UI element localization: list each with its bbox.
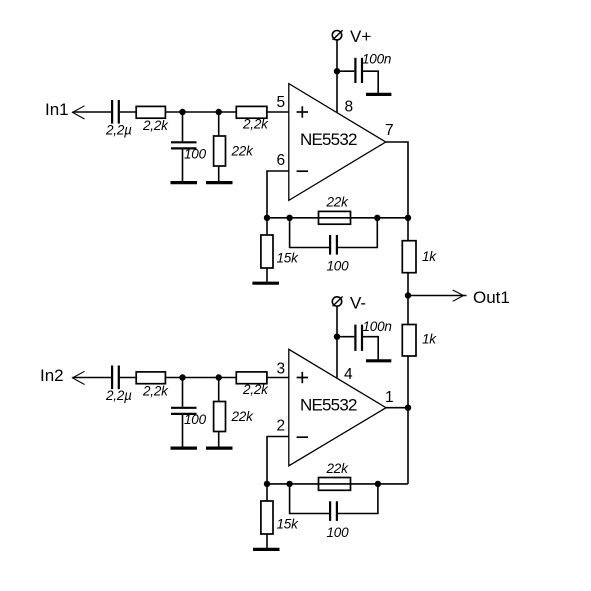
wire R5 to ground <box>266 268 268 282</box>
node V+ junction <box>334 68 340 74</box>
wire node C down to C6 <box>182 378 184 407</box>
ground under R12 <box>253 548 280 551</box>
svg-text:2,2µ: 2,2µ <box>105 123 132 138</box>
wire R10 to ground <box>218 432 220 447</box>
svg-text:V-: V- <box>350 294 366 313</box>
resistor R1 2,2k <box>136 106 165 118</box>
feedback wire <box>267 217 408 219</box>
svg-text:22k: 22k <box>231 144 255 159</box>
svg-text:22k: 22k <box>231 409 255 424</box>
resistor R2 2,2k <box>236 106 267 118</box>
svg-text:15k: 15k <box>277 251 300 266</box>
input arrow In2 <box>73 371 85 384</box>
svg-text:100n: 100n <box>363 319 392 334</box>
capacitor C8 100 feedback <box>290 484 329 514</box>
capacitor C6 100 <box>171 407 197 409</box>
capacitor C4 100 feedback <box>290 218 329 248</box>
resistor R10 22k <box>214 402 226 432</box>
svg-text:100: 100 <box>327 259 350 274</box>
svg-text:100: 100 <box>327 525 350 540</box>
wire V+ to node <box>336 40 338 71</box>
ground under C6 <box>171 447 198 450</box>
wire R9 to op-amp pin 3 <box>267 377 289 379</box>
wire C5 to R8 <box>120 377 136 379</box>
svg-text:100: 100 <box>184 412 207 427</box>
wire node A down to C2 <box>182 112 184 141</box>
svg-text:2,2µ: 2,2µ <box>105 388 132 403</box>
wire C3 to ground <box>363 71 378 93</box>
node D <box>216 374 222 380</box>
capacitor C3 100n <box>354 58 356 83</box>
svg-text:1k: 1k <box>422 249 437 264</box>
svg-text:NE5532: NE5532 <box>300 130 357 149</box>
wire node to pin 4 <box>336 337 338 378</box>
wire R6 to Out1 node <box>407 273 409 296</box>
wire C6 to ground <box>182 415 184 447</box>
svg-text:2,2k: 2,2k <box>242 117 269 132</box>
svg-text:100n: 100n <box>362 52 391 67</box>
wire node B down to R3 <box>218 112 220 136</box>
svg-text:100: 100 <box>184 147 207 162</box>
svg-text:15k: 15k <box>277 517 300 532</box>
ground under C3 <box>366 93 391 96</box>
node V- junction <box>334 334 340 340</box>
resistor R3 22k <box>214 136 226 166</box>
node F4 <box>405 215 411 221</box>
svg-text:5: 5 <box>277 94 286 111</box>
ground under R10 <box>206 447 233 450</box>
svg-text:2,2k: 2,2k <box>142 118 169 133</box>
ground under C7 <box>366 359 391 362</box>
resistor R4 22k feedback <box>319 211 351 224</box>
svg-text:2,2k: 2,2k <box>242 382 269 397</box>
wire to Out1 arrow <box>408 295 467 297</box>
svg-text:2: 2 <box>277 418 286 435</box>
wire R12 to ground <box>266 534 268 548</box>
wire C2 to ground <box>182 149 184 181</box>
wire C1 to R1 <box>120 111 136 113</box>
resistor R11 22k feedback <box>319 478 351 491</box>
resistor R8 2,2k <box>136 372 165 384</box>
wire In1 to C1 <box>73 111 112 113</box>
resistor R7 1k <box>407 296 409 325</box>
wire C7 to ground <box>363 337 378 360</box>
svg-text:22k: 22k <box>326 195 350 210</box>
node G3 <box>375 481 381 487</box>
wire R1 to R2 <box>165 111 236 113</box>
node G2 <box>286 481 292 487</box>
resistor R12 15k <box>266 484 268 501</box>
svg-text:8: 8 <box>345 99 354 116</box>
svg-text:6: 6 <box>277 152 286 169</box>
wire node D down to R10 <box>218 378 220 402</box>
node A <box>179 109 185 115</box>
wire R2 to op-amp pin 5 <box>267 111 289 113</box>
ground under C2 <box>171 181 198 184</box>
input arrow In1 <box>73 106 85 119</box>
node F3 <box>374 215 380 221</box>
node G1 <box>264 481 270 487</box>
svg-text:2,2k: 2,2k <box>142 384 169 399</box>
wire output down to feedback <box>407 408 409 484</box>
wire pin 2 to feedback <box>267 437 289 484</box>
wire R7 down to output node 2 <box>407 356 409 408</box>
svg-text:3: 3 <box>277 361 286 378</box>
node F2 <box>286 215 292 221</box>
ground under R5 <box>252 282 279 285</box>
wire output pin7 <box>386 142 408 218</box>
power terminal V- <box>332 297 341 306</box>
node B <box>216 109 222 115</box>
ground under R3 <box>206 181 233 184</box>
node C <box>179 374 185 380</box>
svg-text:7: 7 <box>385 122 394 139</box>
wire node to C7 <box>337 336 354 338</box>
capacitor C1 2,2u <box>111 100 113 124</box>
wire R8 to R9 <box>165 377 236 379</box>
svg-text:NE5532: NE5532 <box>300 395 357 414</box>
output arrow Out1 <box>453 290 464 301</box>
svg-text:V+: V+ <box>350 27 371 46</box>
resistor R5 15k <box>266 218 268 235</box>
power terminal V+ <box>332 31 341 40</box>
svg-text:1: 1 <box>385 389 394 406</box>
wire output pin1 <box>386 407 408 409</box>
capacitor C2 100 <box>171 141 197 143</box>
capacitor C7 100n <box>354 325 356 351</box>
svg-text:22k: 22k <box>326 461 350 476</box>
svg-text:In1: In1 <box>45 100 69 119</box>
svg-text:In2: In2 <box>40 366 64 385</box>
svg-text:Out1: Out1 <box>473 288 510 307</box>
op-amp U1 NE5532 <box>289 84 386 201</box>
capacitor C5 2,2u <box>111 366 113 390</box>
wire V- to node <box>336 306 338 337</box>
svg-text:1k: 1k <box>422 332 437 347</box>
wire R3 to ground <box>218 166 220 181</box>
node F1 <box>264 215 270 221</box>
svg-text:4: 4 <box>344 366 353 383</box>
node Out2 <box>405 405 411 411</box>
feedback wire 2 <box>267 483 408 485</box>
resistor R6 1k <box>407 218 409 241</box>
op-amp U2 NE5532 <box>289 349 386 466</box>
resistor R9 2,2k <box>236 372 267 384</box>
node Out1 <box>405 292 411 298</box>
wire In2 to C5 <box>73 377 112 379</box>
wire node to C3 <box>337 70 354 72</box>
wire node to pin 8 <box>336 71 338 112</box>
